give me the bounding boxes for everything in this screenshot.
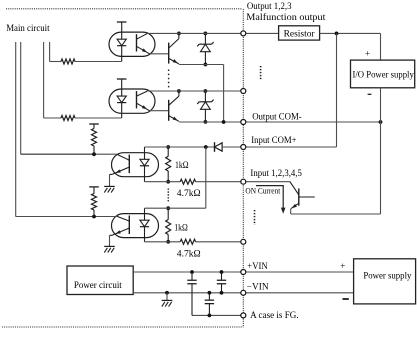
svg-text:Input 1,2,3,4,5: Input 1,2,3,4,5 <box>250 168 302 178</box>
svg-text:Power circuit: Power circuit <box>74 280 122 290</box>
svg-text:−VIN: −VIN <box>247 282 269 292</box>
svg-text:1kΩ: 1kΩ <box>175 160 189 170</box>
svg-text:Resistor: Resistor <box>284 29 315 39</box>
svg-text:+: + <box>365 48 370 58</box>
svg-text:Input COM+: Input COM+ <box>251 135 296 145</box>
svg-text:1kΩ: 1kΩ <box>174 223 188 233</box>
svg-text:ON Current: ON Current <box>245 186 281 195</box>
svg-text:Main circuit: Main circuit <box>6 23 50 33</box>
svg-text:+VIN: +VIN <box>247 261 268 271</box>
svg-text:I/O Power supply: I/O Power supply <box>353 70 415 80</box>
svg-text:Output 1,2,3: Output 1,2,3 <box>247 1 292 11</box>
svg-text:Output COM-: Output COM- <box>252 111 302 121</box>
svg-text:+: + <box>340 261 345 271</box>
svg-text:4.7kΩ: 4.7kΩ <box>177 248 201 258</box>
svg-text:4.7kΩ: 4.7kΩ <box>177 188 201 198</box>
svg-text:A case is FG.: A case is FG. <box>250 310 298 320</box>
svg-text:Malfunction output: Malfunction output <box>246 12 326 22</box>
svg-text:Power supply: Power supply <box>363 270 411 280</box>
